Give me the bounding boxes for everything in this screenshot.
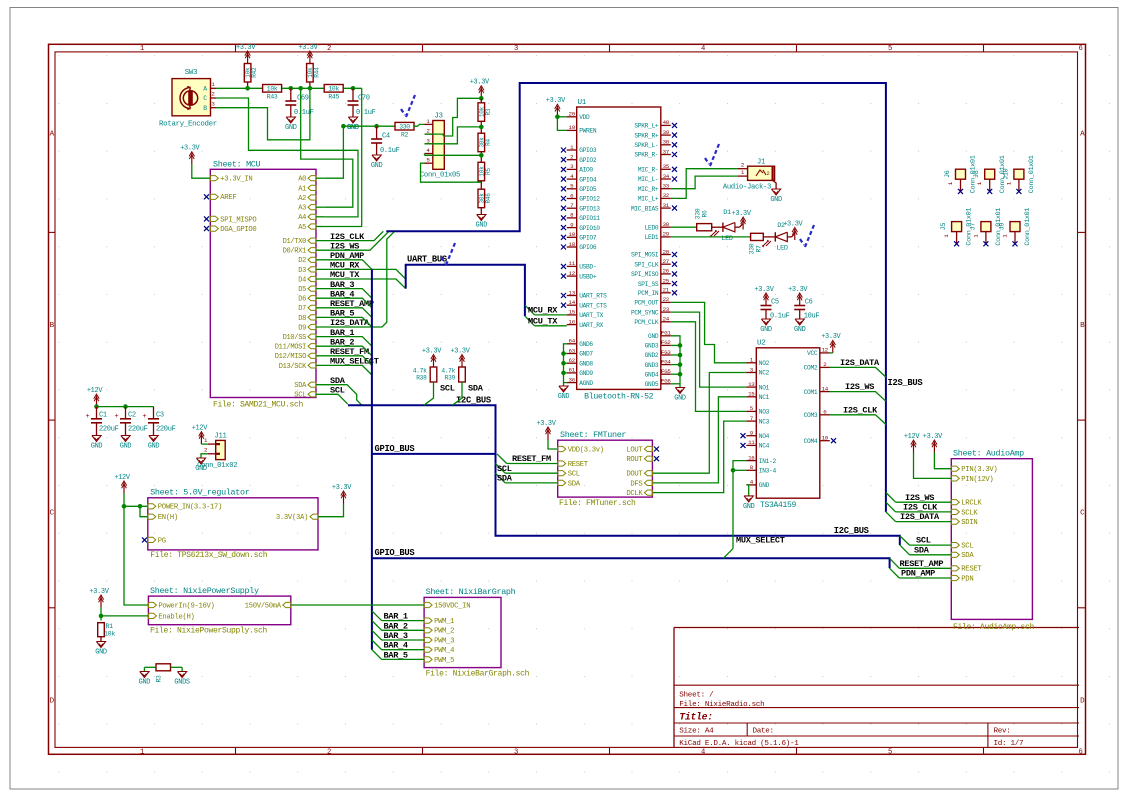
MCU pin D12/MISO net RESET_FM bbox=[308, 353, 316, 358]
U1 pin 8 GPIO11 bbox=[567, 217, 577, 219]
svg-text:+3.3V: +3.3V bbox=[470, 79, 490, 87]
U1 pin 24 PCM_CLK bbox=[661, 321, 671, 323]
svg-text:21: 21 bbox=[663, 287, 670, 294]
svg-text:Sheet: FMTuner: Sheet: FMTuner bbox=[560, 430, 626, 440]
bus entry FMTuner RESET_FM bbox=[497, 454, 507, 464]
wire U1 MIC_R+ to J1 pin1 bbox=[671, 176, 738, 189]
svg-text:31: 31 bbox=[663, 202, 670, 209]
U1 pin 31 MIC_BIAS bbox=[661, 207, 671, 209]
power +3.3V for U2 VCC bbox=[832, 342, 834, 353]
junction R3 top bbox=[479, 96, 484, 101]
resistor R45 10k bbox=[324, 85, 343, 93]
UART_BUS bus bbox=[406, 265, 525, 316]
ground below C4 bbox=[372, 155, 381, 161]
svg-text:I2S_CLK: I2S_CLK bbox=[903, 503, 938, 513]
power +12V for J11 bbox=[200, 433, 202, 444]
sheet FMTuner bbox=[558, 440, 653, 497]
svg-text:30: 30 bbox=[663, 221, 670, 228]
svg-text:GPIO4: GPIO4 bbox=[579, 176, 597, 183]
svg-text:+3.3V: +3.3V bbox=[754, 286, 774, 294]
power +3.3V above R3 bbox=[480, 87, 482, 98]
svg-text:+3.3V: +3.3V bbox=[546, 97, 566, 105]
wire U2 GND pin bbox=[746, 485, 748, 496]
svg-text:+12V: +12V bbox=[192, 424, 209, 432]
LED D2 bbox=[763, 236, 775, 238]
svg-text:I2S_WS: I2S_WS bbox=[905, 493, 934, 503]
U1 pin 13 UART_RTS bbox=[567, 295, 577, 297]
capacitor C5 0.1uF with +3.3V and GND bbox=[765, 295, 767, 306]
svg-text:330: 330 bbox=[399, 123, 410, 130]
svg-text:BAR_3: BAR_3 bbox=[384, 631, 408, 641]
svg-text:SCLK: SCLK bbox=[961, 509, 978, 517]
svg-text:PG: PG bbox=[158, 537, 166, 545]
svg-text:4: 4 bbox=[701, 45, 705, 53]
svg-text:SDA: SDA bbox=[568, 480, 581, 488]
svg-text:D4: D4 bbox=[298, 276, 306, 284]
resistor R2 330 bbox=[395, 122, 414, 130]
ground below J1 bbox=[772, 189, 781, 195]
svg-text:NO3: NO3 bbox=[759, 409, 770, 416]
AudioAmp sheet pin PIN(12V) bbox=[951, 476, 959, 481]
U1 pin 61 GND9 bbox=[567, 372, 577, 374]
svg-text:MIC_L-: MIC_L- bbox=[638, 176, 658, 183]
svg-text:POWER_IN(3.3-17): POWER_IN(3.3-17) bbox=[158, 504, 222, 512]
U1 pin 7 GPIO13 bbox=[567, 207, 577, 209]
svg-text:MUX_SELECT: MUX_SELECT bbox=[736, 536, 785, 546]
svg-text:GND3: GND3 bbox=[645, 362, 659, 369]
svg-text:J10: J10 bbox=[1002, 168, 1010, 180]
analog switch U2 TS3A4159 box bbox=[756, 348, 820, 498]
U1 pin 22 PCM_OUT bbox=[661, 301, 671, 303]
NixieBarGraph sheet pin PWM_2 net BAR_2 bbox=[424, 628, 432, 633]
AudioAmp sheet pin PIN(3.3V) bbox=[951, 466, 959, 471]
svg-text:R38: R38 bbox=[416, 375, 427, 382]
wire I2S_WS to I2S bus bbox=[316, 231, 389, 250]
svg-text:SDA: SDA bbox=[497, 474, 513, 484]
svg-text:NC1: NC1 bbox=[759, 394, 770, 401]
svg-text:1: 1 bbox=[140, 45, 144, 53]
svg-text:VDD: VDD bbox=[579, 114, 590, 121]
svg-text:10k: 10k bbox=[328, 86, 339, 93]
svg-text:GND: GND bbox=[794, 326, 806, 334]
svg-text:5: 5 bbox=[888, 45, 892, 53]
junction VDD bbox=[555, 115, 560, 120]
MCU analog pins A0-A5 bbox=[308, 176, 316, 181]
U1 pin 1 GPIO3 bbox=[567, 149, 577, 151]
power +12V for regulator bbox=[123, 483, 125, 494]
U2 pin 3 NC2 bbox=[746, 372, 756, 374]
power +3.3V for FMTuner VDD bbox=[547, 429, 549, 440]
svg-text:BAR_5: BAR_5 bbox=[384, 650, 408, 660]
U1 pin 21 PCM_IN bbox=[661, 292, 671, 294]
svg-text:AIO0: AIO0 bbox=[579, 167, 593, 174]
svg-text:+3.3V: +3.3V bbox=[450, 347, 470, 355]
svg-text:FG5: FG5 bbox=[661, 368, 671, 375]
ground below R46 bbox=[477, 215, 486, 221]
svg-text:I2S_DATA: I2S_DATA bbox=[900, 512, 940, 522]
capacitor C1 220uF polarized bbox=[96, 407, 98, 419]
ground below C3 bbox=[149, 436, 158, 442]
svg-text:3: 3 bbox=[514, 45, 518, 53]
resistor R3 10k bbox=[478, 103, 485, 122]
svg-text:File: AudioAmp.sch: File: AudioAmp.sch bbox=[953, 623, 1035, 632]
wire SDA to FMTuner bbox=[505, 482, 558, 484]
U1 right FG GND rail wire bbox=[671, 336, 680, 388]
U1 pin 64 GND6 bbox=[567, 343, 577, 345]
NixieBarGraph sheet pin PWM_1 net BAR_1 bbox=[424, 618, 432, 623]
svg-text:GND: GND bbox=[371, 162, 383, 170]
U2 pin 13 NO1 bbox=[746, 386, 756, 388]
bus entry RESET_AMP bbox=[890, 558, 900, 568]
svg-text:Size: A4: Size: A4 bbox=[679, 728, 714, 736]
svg-text:GND: GND bbox=[91, 443, 103, 451]
svg-text:+12V: +12V bbox=[904, 433, 921, 441]
svg-text:SPI_MOSI: SPI_MOSI bbox=[631, 252, 659, 259]
svg-text:A0: A0 bbox=[298, 176, 306, 184]
wire U2 IN1-2 to IN3-4 bbox=[733, 461, 746, 471]
svg-text:U2: U2 bbox=[757, 340, 766, 348]
AudioAmp sheet pin SCL bbox=[951, 543, 959, 548]
svg-text:PWM_4: PWM_4 bbox=[434, 647, 454, 655]
svg-text:COM4: COM4 bbox=[804, 438, 818, 445]
svg-text:Sheet: 5.0V_regulator: Sheet: 5.0V_regulator bbox=[150, 488, 250, 498]
power +12V above C1 C2 C3 bbox=[96, 396, 98, 407]
MCU pin D9 net I2S_DATA bbox=[308, 324, 316, 329]
svg-text:GPIO11: GPIO11 bbox=[579, 215, 600, 222]
svg-text:J7: J7 bbox=[969, 223, 977, 231]
MCU pin D13/SCK net MUX_SELECT bbox=[308, 363, 316, 368]
ground below U2 bbox=[744, 496, 753, 502]
svg-text:File: NixieBarGraph.sch: File: NixieBarGraph.sch bbox=[426, 670, 530, 679]
svg-text:10: 10 bbox=[569, 231, 576, 238]
svg-text:RESET: RESET bbox=[568, 461, 589, 469]
resistor R43 10k bbox=[263, 85, 282, 93]
svg-text:GPIO_BUS: GPIO_BUS bbox=[375, 444, 415, 454]
U2 pin 6 COM3 bbox=[820, 414, 830, 416]
svg-text:1: 1 bbox=[140, 748, 144, 756]
svg-text:I2S_BUS: I2S_BUS bbox=[888, 378, 923, 388]
U1 pin 36 AGND bbox=[567, 382, 577, 384]
svg-text:USBD-: USBD- bbox=[579, 264, 596, 271]
svg-text:SCL: SCL bbox=[961, 543, 973, 551]
U1 pin 30 LED0 bbox=[661, 226, 671, 228]
connector J5 Conn_01x01 bbox=[952, 222, 962, 232]
wire MUX_SELECT down from U2 bbox=[732, 470, 734, 548]
svg-text:A5: A5 bbox=[298, 224, 306, 232]
svg-text:R2: R2 bbox=[401, 132, 409, 139]
svg-text:A2: A2 bbox=[298, 195, 306, 203]
title block bbox=[674, 627, 1079, 629]
U1 pin 38 SPKR_L- bbox=[661, 144, 671, 146]
wire +12V down to NixiePowerSupply bbox=[124, 506, 148, 605]
svg-text:SCL: SCL bbox=[294, 392, 306, 400]
bus entry AudioAmp SCL bbox=[900, 536, 910, 545]
svg-text:SPKR_L-: SPKR_L- bbox=[634, 142, 658, 149]
FMTuner sheet pins left bbox=[558, 446, 566, 451]
U1 pin 14 UART_CTS bbox=[567, 304, 577, 306]
svg-text:0.1uF: 0.1uF bbox=[770, 313, 790, 321]
ground below U1 FG rail bbox=[675, 388, 684, 394]
U2 pin 14 COM1 bbox=[820, 391, 830, 393]
svg-text:330: 330 bbox=[695, 208, 702, 219]
svg-text:2: 2 bbox=[766, 170, 769, 177]
resistor R4 30k bbox=[478, 133, 485, 152]
NixieBarGraph sheet pin 150VDC_IN bbox=[424, 602, 432, 607]
svg-text:PCM_SYNC: PCM_SYNC bbox=[631, 309, 659, 316]
svg-text:GND: GND bbox=[285, 124, 297, 132]
svg-text:SPKR_L+: SPKR_L+ bbox=[634, 123, 658, 130]
U1 pin 12 USBD+ bbox=[567, 275, 577, 277]
svg-text:FG2: FG2 bbox=[661, 339, 671, 346]
svg-text:R4: R4 bbox=[485, 139, 492, 146]
U1 pin 19 PWREN bbox=[567, 129, 577, 131]
svg-text:IN3-4: IN3-4 bbox=[759, 468, 777, 475]
svg-text:A1: A1 bbox=[298, 185, 306, 193]
wire BAR_3 to GPIO bus bbox=[316, 289, 372, 299]
svg-text:I2S_DATA: I2S_DATA bbox=[840, 358, 880, 368]
U1 pin 20 VDD bbox=[567, 116, 577, 118]
resistor R46 30k bbox=[478, 189, 485, 208]
svg-text:FG1: FG1 bbox=[661, 330, 671, 337]
regulator sheet pin POWER_IN bbox=[148, 504, 156, 509]
MCU pin D1/TX0 net I2S_CLK bbox=[308, 238, 316, 243]
svg-text:36: 36 bbox=[569, 376, 576, 383]
svg-text:PWM_2: PWM_2 bbox=[434, 628, 454, 636]
svg-text:J6: J6 bbox=[944, 170, 952, 178]
wire A0 riser bbox=[325, 126, 344, 178]
U1 pin 23 PCM_SYNC bbox=[661, 311, 671, 313]
svg-text:FG6: FG6 bbox=[661, 378, 671, 385]
svg-text:SPI_MISO: SPI_MISO bbox=[631, 271, 659, 278]
svg-text:GND: GND bbox=[558, 393, 570, 401]
svg-text:NO1: NO1 bbox=[759, 384, 770, 391]
svg-text:14: 14 bbox=[569, 299, 576, 306]
bus entry PDN_AMP bbox=[890, 568, 900, 578]
U1 pin FG3 GND2 bbox=[661, 354, 671, 356]
blue check mark near J3 bbox=[401, 95, 415, 117]
svg-text:DCLK: DCLK bbox=[626, 490, 643, 498]
svg-text:LED1: LED1 bbox=[645, 234, 659, 241]
svg-text:COM1: COM1 bbox=[804, 389, 818, 396]
svg-text:4.7k: 4.7k bbox=[441, 368, 455, 375]
power +3.3V at regulator output bbox=[343, 493, 345, 504]
svg-text:NO2: NO2 bbox=[759, 360, 770, 367]
svg-text:GPIO2: GPIO2 bbox=[579, 157, 597, 164]
svg-text:SDA: SDA bbox=[468, 384, 484, 394]
wire node N2 down to MCU A5 bbox=[325, 88, 362, 226]
U1 pin 63 GND7 bbox=[567, 353, 577, 355]
svg-text:D6: D6 bbox=[298, 296, 306, 304]
U1 pin 28 SPI_MOSI bbox=[661, 254, 671, 256]
FMTuner sheet pins right bbox=[644, 446, 652, 451]
connector J10 Conn_01x01 bbox=[1014, 169, 1024, 179]
svg-text:J3: J3 bbox=[434, 113, 442, 121]
U1 pin 2 GPIO2 bbox=[567, 159, 577, 161]
svg-text:10k: 10k bbox=[104, 631, 115, 638]
svg-text:AGND: AGND bbox=[579, 380, 593, 387]
svg-text:File: SAMD21_MCU.sch: File: SAMD21_MCU.sch bbox=[213, 401, 304, 410]
sheet 5.0V_regulator bbox=[148, 498, 318, 550]
svg-text:62: 62 bbox=[569, 357, 576, 364]
ground below U1 left rail bbox=[559, 386, 568, 392]
AudioAmp sheet pin SDA bbox=[951, 552, 959, 557]
svg-text:GND9: GND9 bbox=[579, 370, 593, 377]
svg-text:SW3: SW3 bbox=[185, 69, 197, 77]
svg-text:PCM_IN: PCM_IN bbox=[638, 290, 659, 297]
connector J3 Conn_01x05 bbox=[433, 121, 445, 170]
U2 pin 9 NO4 bbox=[746, 435, 756, 437]
svg-text:GND: GND bbox=[139, 679, 151, 687]
svg-text:BAR_4: BAR_4 bbox=[384, 641, 408, 651]
wire MCU_TX to U1 UART_RX bbox=[535, 325, 567, 327]
svg-text:D12/MISO: D12/MISO bbox=[275, 353, 306, 361]
svg-text:R3: R3 bbox=[156, 675, 163, 683]
wire encoder pin B (3) route bbox=[216, 108, 311, 140]
op-amp U1 Bluetooth-RN-52 box bbox=[577, 107, 661, 389]
svg-text:GPIO7: GPIO7 bbox=[579, 235, 597, 242]
wire SDA to AudioAmp bbox=[910, 554, 952, 556]
svg-text:10k: 10k bbox=[267, 86, 278, 93]
svg-text:C4: C4 bbox=[382, 133, 390, 141]
wire U2 COM1 I2S_WS to I2S bus bbox=[830, 392, 886, 402]
svg-text:MCU_RX: MCU_RX bbox=[528, 306, 558, 316]
wire to EN(H) bbox=[140, 506, 148, 516]
capacitor C4 0.1uF bbox=[376, 126, 378, 139]
svg-text:GND6: GND6 bbox=[579, 341, 593, 348]
svg-text:Sheet: NixiePowerSupply: Sheet: NixiePowerSupply bbox=[150, 586, 259, 596]
svg-text:C: C bbox=[203, 95, 207, 102]
U1 pin 26 SPI_MISO bbox=[661, 273, 671, 275]
svg-text:12: 12 bbox=[822, 347, 829, 354]
wire RESET_AMP to GPIO bus bbox=[316, 308, 372, 318]
svg-text:MIC_R+: MIC_R+ bbox=[638, 186, 659, 193]
wire BAR_2 to GPIO bus bbox=[316, 346, 372, 356]
svg-text:SCL: SCL bbox=[916, 536, 931, 546]
svg-text:GND: GND bbox=[760, 326, 772, 334]
svg-text:VDD(3.3v): VDD(3.3v) bbox=[568, 446, 604, 454]
junction dots on encoder row bbox=[245, 86, 250, 91]
AudioAmp sheet pin SDIN bbox=[951, 519, 959, 524]
svg-text:+3.3V: +3.3V bbox=[732, 210, 752, 218]
svg-text:C3: C3 bbox=[156, 412, 164, 420]
svg-text:J9: J9 bbox=[999, 223, 1007, 231]
capacitor C3 220uF polarized bbox=[153, 407, 155, 419]
svg-text:Title:: Title: bbox=[679, 712, 712, 723]
U2 pin 2 COM2 bbox=[820, 366, 830, 368]
svg-text:330: 330 bbox=[749, 243, 756, 254]
svg-text:UART_BUS: UART_BUS bbox=[407, 255, 447, 265]
U1 pin 34 MIC_L- bbox=[661, 178, 671, 180]
U1 pin 5 GPIO5 bbox=[567, 188, 577, 190]
U1 pin 25 SPI_SS bbox=[661, 283, 671, 285]
resistor R7 330 bbox=[751, 233, 764, 240]
wire MUX_SELECT to GPIO bus bbox=[316, 365, 372, 375]
svg-text:I2C_BUS: I2C_BUS bbox=[834, 526, 869, 536]
svg-text:LED: LED bbox=[776, 245, 788, 253]
svg-text:PIN(3.3V): PIN(3.3V) bbox=[961, 466, 997, 474]
svg-text:2: 2 bbox=[327, 45, 331, 53]
svg-text:BAR_1: BAR_1 bbox=[384, 612, 408, 622]
svg-text:C69: C69 bbox=[297, 95, 309, 103]
svg-text:25: 25 bbox=[663, 277, 670, 284]
svg-text:+3.3V: +3.3V bbox=[536, 420, 556, 428]
svg-text:Sheet: /: Sheet: / bbox=[679, 692, 714, 700]
svg-text:File: FMTuner.sch: File: FMTuner.sch bbox=[559, 499, 636, 508]
svg-text:PWREN: PWREN bbox=[579, 128, 597, 135]
resistor R5 10k bbox=[478, 162, 485, 181]
U1 pin 62 GND8 bbox=[567, 362, 577, 364]
wire U1 PCM_SYNC to U2 NO1 bbox=[671, 312, 747, 387]
wire MCU_TX to UART bus bbox=[316, 279, 406, 289]
MCU pin D2 net PDN_AMP bbox=[308, 257, 316, 262]
svg-text:SDA: SDA bbox=[961, 552, 974, 560]
svg-text:18: 18 bbox=[569, 241, 576, 248]
svg-text:GPIO10: GPIO10 bbox=[579, 225, 600, 232]
AudioAmp sheet pin LRCLK bbox=[951, 500, 959, 505]
svg-text:File: TPS6213x_SW_down.sch: File: TPS6213x_SW_down.sch bbox=[150, 551, 268, 560]
svg-text:COM3: COM3 bbox=[804, 412, 818, 419]
connector J1 Audio-Jack-3 bbox=[748, 166, 775, 180]
ground below C70 bbox=[348, 117, 357, 123]
svg-text:R5: R5 bbox=[485, 168, 492, 175]
bus entry FMTuner SCL bbox=[496, 464, 506, 474]
svg-text:LED: LED bbox=[721, 235, 733, 243]
svg-text:C70: C70 bbox=[358, 95, 370, 103]
sheet pin DGA_GPIO0 with no-connect bbox=[210, 226, 218, 231]
junction R3/R4 to J3 pin3 bbox=[479, 125, 484, 130]
svg-text:BAR_2: BAR_2 bbox=[384, 621, 408, 631]
svg-text:B: B bbox=[203, 105, 207, 112]
svg-text:DOUT: DOUT bbox=[626, 471, 643, 479]
wire U1 PCM_CLK to U2 NO3 bbox=[671, 322, 747, 412]
svg-text:GND8: GND8 bbox=[579, 360, 593, 367]
sheet pin +3.3V_IN bbox=[210, 176, 218, 181]
bus entry I2S_WS to AudioAmp LRCLK bbox=[886, 493, 896, 503]
svg-text:I2C_BUS: I2C_BUS bbox=[456, 395, 491, 405]
power +12V for AudioAmp bbox=[913, 442, 915, 453]
GPIO bus branch to AudioAmp bbox=[372, 558, 890, 568]
MCU pin D11/MOSI net BAR_2 bbox=[308, 344, 316, 349]
MCU pins SDA SCL bbox=[308, 382, 316, 387]
svg-text:32: 32 bbox=[663, 192, 670, 199]
svg-text:EN(H): EN(H) bbox=[158, 514, 178, 522]
svg-text:0.1uF: 0.1uF bbox=[356, 109, 376, 117]
wire MCU_RX to U1 UART_TX bbox=[535, 314, 567, 316]
AudioAmp sheet pin SCLK bbox=[951, 509, 959, 514]
svg-text:SPI_MISPO: SPI_MISPO bbox=[220, 216, 256, 224]
svg-text:GND2: GND2 bbox=[645, 352, 659, 359]
svg-text:24: 24 bbox=[663, 316, 670, 323]
LED D1 bbox=[712, 226, 723, 228]
wire +3.3V to VDD and PWREN bbox=[557, 116, 566, 118]
svg-text:J5: J5 bbox=[940, 223, 948, 231]
svg-text:27: 27 bbox=[663, 258, 670, 265]
svg-text:11: 11 bbox=[569, 260, 576, 267]
NixiePowerSupply sheet pin PowerIn bbox=[148, 602, 156, 607]
svg-text:D5: D5 bbox=[298, 286, 306, 294]
svg-text:FG4: FG4 bbox=[661, 358, 671, 365]
svg-text:GND3: GND3 bbox=[645, 343, 659, 350]
junction C4 tap bbox=[374, 124, 379, 129]
svg-text:SCL: SCL bbox=[497, 464, 512, 474]
I2S bus (top loop) bbox=[386, 83, 886, 512]
svg-text:GPIO3: GPIO3 bbox=[579, 147, 597, 154]
svg-text:C1: C1 bbox=[99, 412, 107, 420]
svg-text:GND: GND bbox=[476, 222, 488, 230]
svg-text:File: NixiePowerSupply.sch: File: NixiePowerSupply.sch bbox=[150, 627, 268, 636]
svg-text:D2: D2 bbox=[298, 257, 306, 265]
wire SCL to FMTuner bbox=[505, 472, 558, 474]
